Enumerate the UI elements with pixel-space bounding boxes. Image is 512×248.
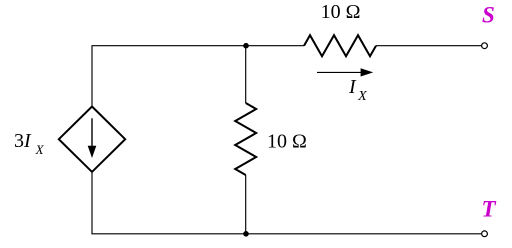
svg-text:10 Ω: 10 Ω — [267, 131, 307, 153]
svg-text:10 Ω: 10 Ω — [321, 1, 361, 23]
wire node A down to resistor R2 — [245, 46, 247, 103]
svg-text:S: S — [482, 3, 495, 28]
wire resistor R1 to terminal S — [376, 45, 481, 47]
terminal T open circle — [482, 231, 488, 237]
wire node B to terminal T — [246, 233, 481, 235]
wire bottom-left (from current source down and right to node B) — [92, 172, 246, 234]
node B (bottom junction dot) — [243, 231, 249, 237]
resistor R2 10 ohm vertical — [235, 103, 256, 175]
svg-text:IX: IX — [348, 76, 367, 104]
wire resistor R2 to bottom node — [245, 175, 247, 234]
svg-text:T: T — [482, 197, 497, 222]
dependent current source 3I_X (diamond) — [59, 107, 125, 172]
current arrow I_X — [317, 68, 373, 76]
resistor R1 10 ohm horizontal — [304, 35, 376, 56]
node A (top junction dot) — [243, 43, 249, 49]
svg-text:3IX: 3IX — [14, 130, 45, 157]
wire node to resistor R1 — [246, 45, 304, 47]
terminal S open circle — [482, 43, 488, 49]
wire top-left (from current source up and right to node A) — [92, 46, 246, 107]
